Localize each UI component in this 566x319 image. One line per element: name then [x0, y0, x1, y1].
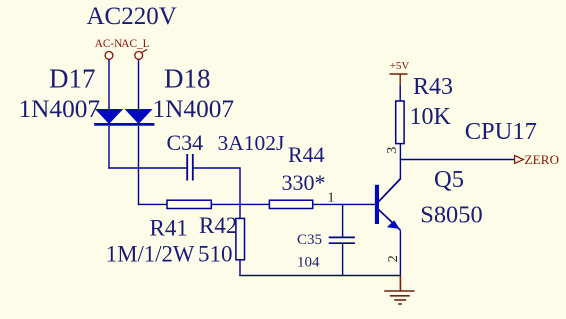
wire corner down to R42 top crossing main line [239, 168, 241, 218]
svg-text:104: 104 [297, 255, 320, 271]
svg-text:R43: R43 [413, 74, 453, 100]
capacitor C34 plates [186, 154, 188, 181]
wire D17 cathode down [108, 126, 110, 169]
svg-text:AC220V: AC220V [87, 3, 177, 30]
svg-text:330*: 330* [282, 170, 326, 195]
wire to C34 left plate [108, 167, 186, 169]
svg-text:AC_L: AC_L [121, 38, 149, 50]
diode D17 triangle [95, 109, 123, 124]
ground symbol [384, 276, 414, 305]
wire emitter down to ground node [399, 231, 401, 277]
svg-text:D18: D18 [164, 64, 211, 94]
wire D18 cathode down to main line [138, 126, 140, 205]
svg-text:R44: R44 [288, 142, 325, 167]
wire C35 bottom lead [342, 243, 344, 276]
svg-text:3A102J: 3A102J [218, 131, 285, 155]
svg-text:10K: 10K [410, 104, 452, 130]
svg-text:2: 2 [386, 255, 401, 262]
wire C34 right plate to corner [194, 167, 241, 169]
svg-text:C34: C34 [167, 130, 204, 155]
wire R42 bottom down [239, 260, 241, 276]
bottom wire to emitter/ground node [239, 275, 401, 277]
svg-text:+5V: +5V [390, 60, 410, 72]
resistor R43 body [396, 101, 404, 144]
svg-text:1N4007: 1N4007 [19, 95, 101, 123]
svg-text:3: 3 [385, 147, 400, 154]
diode D18 triangle [125, 109, 153, 124]
svg-text:510: 510 [198, 242, 233, 267]
output arrow ZERO [515, 156, 524, 164]
resistor R41 body [167, 200, 211, 208]
svg-text:R42: R42 [199, 213, 237, 238]
svg-text:D17: D17 [49, 64, 96, 94]
wire from AC-N pin to D17 anode [108, 59, 110, 110]
wire to R41 left [138, 203, 167, 205]
Q5 collector diagonal [379, 178, 401, 201]
cathode bar of D17/D18 [94, 123, 154, 126]
svg-text:Q5: Q5 [434, 166, 464, 193]
svg-text:ZERO: ZERO [525, 152, 560, 167]
wire collector node to ZERO arrow [400, 159, 514, 161]
capacitor C35 plates [329, 236, 355, 238]
wire R43 bottom to collector [399, 144, 401, 180]
svg-text:S8050: S8050 [420, 202, 482, 229]
wire C35 top lead [342, 204, 344, 237]
svg-text:1N4007: 1N4007 [153, 95, 235, 123]
svg-text:AC-N: AC-N [95, 38, 123, 50]
wire from AC_L pin to D18 anode [138, 59, 140, 110]
Q5 emitter arrow [387, 220, 400, 229]
svg-text:R41: R41 [150, 216, 188, 241]
terminal pin AC_L [135, 52, 143, 60]
wire R41 to R44 [211, 203, 269, 205]
Q5 emitter diagonal [379, 210, 401, 231]
svg-text:C35: C35 [297, 232, 322, 248]
resistor R42 body [236, 218, 245, 259]
svg-text:1M/1/2W: 1M/1/2W [106, 242, 195, 267]
wire +5V to R43 [399, 86, 401, 102]
svg-text:CPU17: CPU17 [465, 118, 537, 145]
terminal pin AC-N [105, 52, 113, 60]
resistor R44 body [269, 200, 312, 208]
terminal tick on AC_L [141, 49, 147, 52]
svg-text:1: 1 [328, 191, 335, 206]
wire R44 to Q5 base [313, 203, 375, 205]
transistor Q5 base bar [375, 185, 379, 224]
